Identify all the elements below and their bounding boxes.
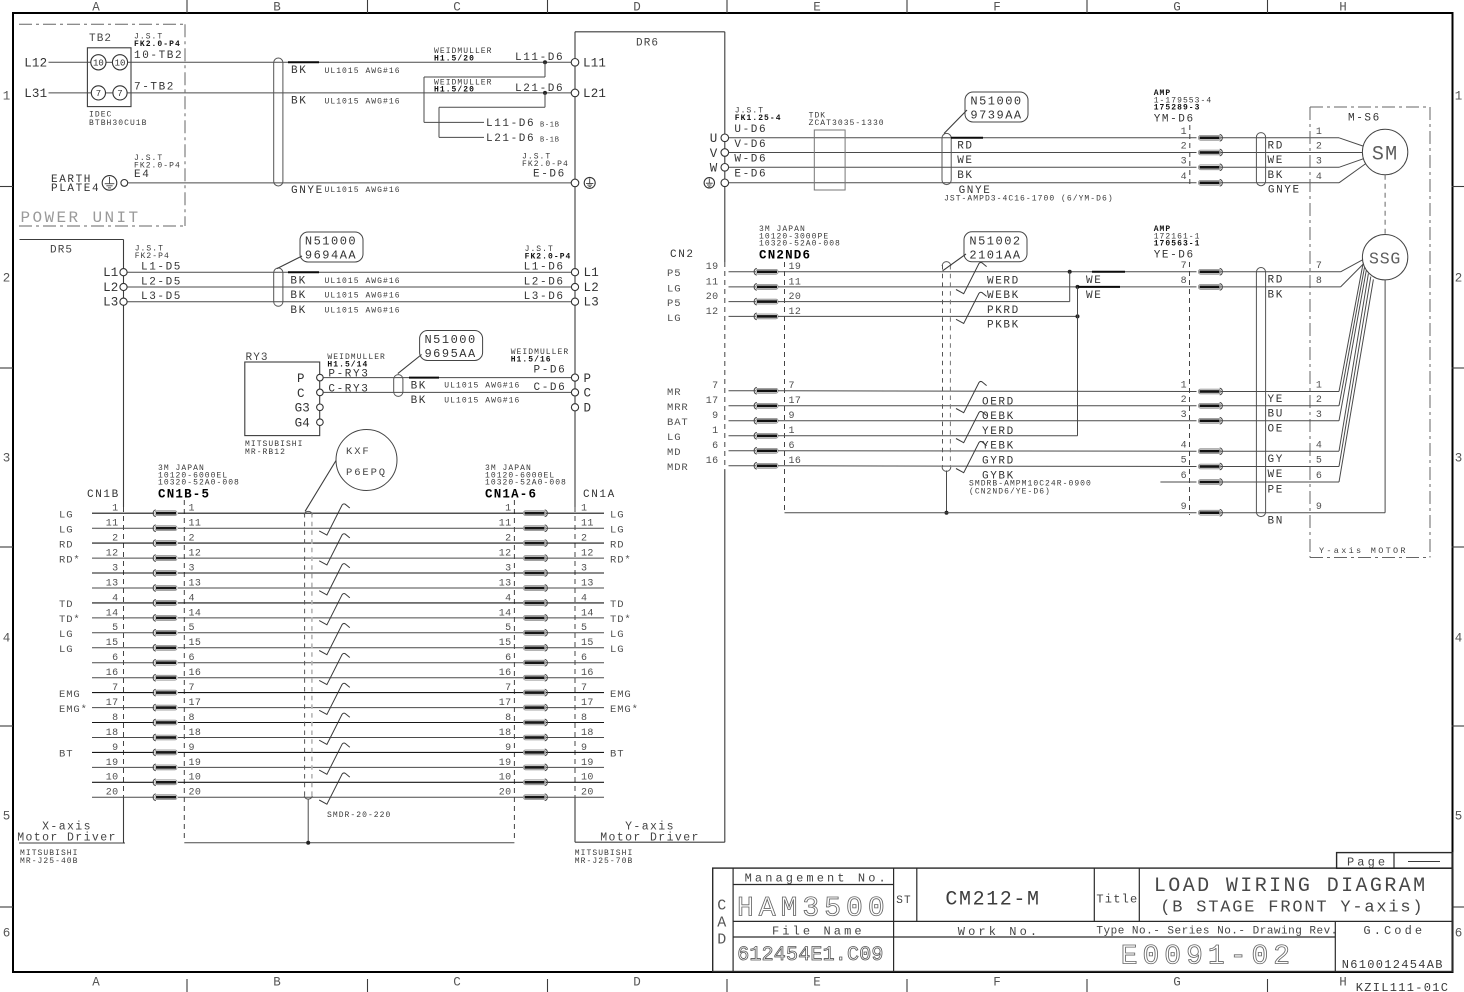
svg-text:10320-52A0-008: 10320-52A0-008 bbox=[759, 240, 841, 249]
X-axis motor driver DR5 box bbox=[20, 239, 124, 241]
svg-text:JST-AMPD3-4C16-1700 (6/YM-D6): JST-AMPD3-4C16-1700 (6/YM-D6) bbox=[944, 194, 1114, 203]
ferrule CN1A-6 pin 12 bbox=[545, 555, 548, 562]
svg-text:3: 3 bbox=[112, 563, 118, 574]
svg-text:19: 19 bbox=[706, 262, 719, 273]
svg-text:FK2.0-P4: FK2.0-P4 bbox=[134, 40, 181, 49]
svg-text:EMG: EMG bbox=[610, 689, 632, 701]
svg-text:BT: BT bbox=[59, 749, 73, 761]
svg-text:YEBK: YEBK bbox=[982, 441, 1015, 453]
svg-text:1: 1 bbox=[1316, 127, 1322, 138]
svg-text:5: 5 bbox=[1316, 456, 1322, 467]
svg-text:13: 13 bbox=[106, 578, 119, 589]
svg-text:19: 19 bbox=[189, 758, 202, 769]
wire CN1B pin 20 to CN1A pin 20 bbox=[92, 796, 154, 798]
wire CN1B pin 15 to CN1A pin 15 bbox=[92, 647, 154, 649]
svg-text:U-D6: U-D6 bbox=[734, 124, 767, 136]
svg-text:8: 8 bbox=[505, 713, 511, 724]
svg-text:GY: GY bbox=[1268, 454, 1284, 466]
svg-text:P-RY3: P-RY3 bbox=[328, 368, 369, 380]
svg-text:WE: WE bbox=[1086, 290, 1102, 302]
svg-text:Work No.: Work No. bbox=[958, 925, 1040, 939]
svg-text:3: 3 bbox=[1455, 452, 1463, 466]
wire CN1B pin 12 to CN1A pin 12 bbox=[92, 557, 154, 559]
svg-text:6: 6 bbox=[112, 653, 118, 664]
wire emphasis U bbox=[951, 137, 983, 139]
svg-text:U: U bbox=[710, 132, 718, 146]
ferrule YE-D6 pin 1 bbox=[1220, 388, 1223, 395]
svg-text:6: 6 bbox=[1316, 471, 1322, 482]
ferrule CN1B-5 pin 2 bbox=[153, 540, 156, 547]
svg-text:(CN2ND6/YE-D6): (CN2ND6/YE-D6) bbox=[969, 488, 1051, 497]
svg-text:L3-D5: L3-D5 bbox=[141, 291, 182, 303]
svg-text:11: 11 bbox=[499, 519, 512, 530]
cable sheath (power unit to DR6) bbox=[274, 58, 283, 186]
svg-text:LG: LG bbox=[667, 432, 681, 444]
svg-text:E0091-02: E0091-02 bbox=[1121, 942, 1295, 973]
svg-text:H: H bbox=[1339, 1, 1347, 15]
svg-text:ST: ST bbox=[896, 895, 911, 907]
ferrule CN1B-5 pin 18 bbox=[153, 734, 156, 741]
wire L12 to TB2 bbox=[49, 61, 91, 63]
ferrule CN2ND6 pin 20 bbox=[754, 298, 757, 305]
svg-text:18: 18 bbox=[499, 728, 512, 739]
svg-text:6: 6 bbox=[189, 653, 195, 664]
svg-text:H1.5/16: H1.5/16 bbox=[511, 355, 552, 364]
wire OEBK (MRR) to pin2 bbox=[778, 405, 1197, 407]
svg-text:CN1B-5: CN1B-5 bbox=[158, 488, 210, 502]
twist markers CN2 cable bbox=[956, 262, 987, 293]
ferrule CN1A-6 pin 18 bbox=[545, 734, 548, 741]
svg-text:UL1015 AWG#16: UL1015 AWG#16 bbox=[325, 306, 401, 315]
svg-text:L1: L1 bbox=[584, 266, 599, 280]
svg-text:9: 9 bbox=[112, 743, 118, 754]
wire GYRD (MD) to pin4 bbox=[778, 450, 1197, 452]
wire BN (pin9) to SSG bottom bbox=[1221, 512, 1386, 514]
svg-text:DR6: DR6 bbox=[636, 37, 659, 49]
svg-text:BK: BK bbox=[411, 395, 427, 407]
svg-text:BK: BK bbox=[290, 305, 306, 317]
svg-text:3: 3 bbox=[581, 563, 587, 574]
ferrule CN1B-5 pin 17 bbox=[153, 704, 156, 711]
svg-text:L3: L3 bbox=[584, 296, 599, 310]
ferrule CN1A-6 pin 11 bbox=[545, 525, 548, 532]
wire W to YM-D6 pin3 bbox=[729, 166, 1197, 168]
cable sheath RY3 bbox=[394, 375, 403, 397]
svg-text:LG: LG bbox=[59, 509, 73, 521]
svg-text:YE: YE bbox=[1268, 394, 1284, 406]
svg-text:1: 1 bbox=[3, 90, 11, 104]
svg-text:18: 18 bbox=[106, 728, 119, 739]
svg-text:BK: BK bbox=[411, 380, 427, 392]
svg-text:15: 15 bbox=[106, 638, 119, 649]
svg-text:P-D6: P-D6 bbox=[534, 364, 567, 376]
svg-text:L21-D6: L21-D6 bbox=[486, 133, 535, 145]
twist markers CN1B cable bbox=[319, 504, 350, 535]
svg-text:L31: L31 bbox=[24, 87, 47, 101]
svg-text:20: 20 bbox=[106, 788, 119, 799]
TDK ferrite ZCAT3035-1330 bbox=[814, 130, 845, 190]
wire CN1B pin 16 to CN1A pin 16 bbox=[92, 677, 154, 679]
svg-text:EMG: EMG bbox=[59, 689, 81, 701]
cable shield drain CN2ND6 bbox=[946, 471, 948, 513]
TB2 terminal 10 (right) bbox=[112, 55, 127, 70]
svg-text:BN: BN bbox=[1268, 515, 1284, 527]
ferrule YM-D6 pin 3 bbox=[1220, 164, 1223, 171]
svg-text:2: 2 bbox=[1316, 395, 1322, 406]
svg-text:12: 12 bbox=[706, 307, 719, 318]
svg-text:G4: G4 bbox=[295, 417, 310, 431]
wire L31 to TB2 bbox=[49, 92, 92, 94]
svg-text:2101AA: 2101AA bbox=[969, 248, 1021, 262]
terminal G4 bbox=[317, 419, 324, 426]
svg-text:L3: L3 bbox=[103, 296, 118, 310]
terminal block TB2 bbox=[87, 48, 131, 107]
wire U to YM-D6 pin1 bbox=[729, 137, 1197, 139]
svg-text:MDR: MDR bbox=[667, 462, 689, 474]
svg-text:170563-1: 170563-1 bbox=[1154, 240, 1201, 249]
svg-text:RD: RD bbox=[1268, 274, 1284, 286]
svg-text:10: 10 bbox=[189, 773, 202, 784]
terminal L21 on DR6 bbox=[571, 89, 579, 97]
terminal C DR6 bbox=[571, 389, 578, 396]
ferrule CN2ND6 pin 6 bbox=[754, 447, 757, 454]
svg-text:C: C bbox=[453, 976, 461, 990]
ferrule CN1A-6 pin 6 bbox=[545, 659, 548, 666]
svg-text:HAM3500: HAM3500 bbox=[737, 894, 890, 925]
ferrule CN2ND6 pin 7 bbox=[754, 387, 757, 394]
ferrule CN1A-6 pin 20 bbox=[545, 794, 548, 801]
svg-text:1: 1 bbox=[505, 504, 511, 515]
shield bond wire between connector shells bbox=[184, 842, 514, 844]
ferrule YM-D6 pin 4 bbox=[1220, 179, 1223, 186]
svg-text:1: 1 bbox=[1316, 381, 1322, 392]
svg-text:N51000: N51000 bbox=[305, 235, 357, 249]
wire CN1B pin 8 to CN1A pin 8 bbox=[92, 722, 154, 724]
wire C-RY3 to C-D6 bbox=[323, 391, 575, 393]
svg-text:H1.5/20: H1.5/20 bbox=[434, 54, 475, 63]
svg-text:D: D bbox=[584, 402, 592, 416]
svg-text:RY3: RY3 bbox=[246, 352, 269, 364]
wire YM-D6 pin 4 to motor bbox=[1221, 182, 1340, 184]
svg-text:WE: WE bbox=[1268, 469, 1284, 481]
wire CN1B pin 3 to CN1A pin 3 bbox=[92, 572, 154, 574]
svg-text:14: 14 bbox=[189, 608, 202, 619]
wire WERD (pin19) to YE-D6 pin7 bbox=[778, 271, 1197, 273]
svg-text:C-D6: C-D6 bbox=[534, 382, 567, 394]
svg-text:6: 6 bbox=[3, 927, 11, 941]
svg-text:4: 4 bbox=[189, 593, 195, 604]
wire emphasis P bbox=[409, 377, 439, 379]
ferrule CN1A-6 pin 3 bbox=[545, 570, 548, 577]
svg-text:RD: RD bbox=[957, 140, 973, 152]
terminal L3 DR6 bbox=[571, 298, 578, 305]
svg-text:4: 4 bbox=[1316, 440, 1322, 451]
svg-text:RD: RD bbox=[1268, 140, 1284, 152]
ferrule CN1B-5 pin 4 bbox=[153, 600, 156, 607]
svg-text:17: 17 bbox=[706, 396, 719, 407]
svg-text:17: 17 bbox=[581, 698, 594, 709]
svg-text:CM212-M: CM212-M bbox=[945, 888, 1040, 911]
svg-text:YM-D6: YM-D6 bbox=[1154, 114, 1195, 126]
ferrule CN1B-5 pin 11 bbox=[153, 525, 156, 532]
svg-text:10: 10 bbox=[93, 59, 104, 69]
svg-text:E: E bbox=[813, 976, 821, 990]
svg-text:4: 4 bbox=[112, 593, 118, 604]
CN2ND6 connector boundary (dashed) bbox=[784, 262, 786, 511]
svg-text:L2-D6: L2-D6 bbox=[524, 276, 565, 288]
TB2 terminal 7 (right) bbox=[113, 86, 127, 100]
ferrule CN2ND6 pin 16 bbox=[754, 462, 757, 469]
cable CN2ND6 (dashed pair) bbox=[942, 265, 944, 467]
svg-text:10-TB2: 10-TB2 bbox=[134, 50, 183, 62]
POWER UNIT enclosure (dash-dot) bbox=[19, 23, 185, 25]
svg-text:RD: RD bbox=[59, 539, 73, 551]
svg-text:LG: LG bbox=[610, 509, 624, 521]
svg-text:7: 7 bbox=[117, 89, 122, 99]
wire WEBK (pin11) bbox=[778, 286, 1197, 288]
svg-text:TD*: TD* bbox=[610, 614, 632, 626]
ferrule CN1B-5 pin 6 bbox=[153, 659, 156, 666]
svg-text:6: 6 bbox=[1181, 471, 1187, 482]
wire emphasis L11 bbox=[288, 61, 319, 63]
svg-text:G3: G3 bbox=[295, 402, 310, 416]
svg-text:ZCAT3035-1330: ZCAT3035-1330 bbox=[809, 119, 885, 128]
wire CN2 pin 16 (MDR) bbox=[729, 465, 756, 467]
svg-text:UL1015 AWG#16: UL1015 AWG#16 bbox=[444, 382, 520, 391]
svg-text:7: 7 bbox=[112, 683, 118, 694]
wire CN2 pin 7 (MR) bbox=[729, 390, 756, 392]
wire CN1B pin 13 to CN1A pin 13 bbox=[92, 587, 154, 589]
ferrule CN1B-5 pin 9 bbox=[153, 749, 156, 756]
svg-text:D: D bbox=[633, 1, 641, 15]
ferrule CN1B-5 pin 20 bbox=[153, 794, 156, 801]
svg-text:WE: WE bbox=[1268, 155, 1284, 167]
shield/PE wire to YE-D6 pin9 bbox=[785, 512, 1197, 514]
svg-text:4: 4 bbox=[1455, 632, 1463, 646]
svg-text:LG: LG bbox=[667, 313, 681, 325]
svg-text:Management No.: Management No. bbox=[745, 872, 889, 886]
wire CN2 pin 20 (P5) bbox=[729, 301, 756, 303]
svg-text:11: 11 bbox=[706, 277, 719, 288]
svg-text:GNYE: GNYE bbox=[291, 185, 324, 197]
ferrule CN2ND6 pin 12 bbox=[754, 313, 757, 320]
svg-text:BTBH30CU1B: BTBH30CU1B bbox=[89, 119, 148, 128]
svg-text:16: 16 bbox=[189, 668, 202, 679]
svg-text:10: 10 bbox=[106, 773, 119, 784]
svg-text:L2-D5: L2-D5 bbox=[141, 276, 182, 288]
svg-text:2: 2 bbox=[112, 534, 118, 545]
svg-text:1: 1 bbox=[581, 504, 587, 515]
terminal C bbox=[317, 389, 324, 396]
svg-text:H1.5/20: H1.5/20 bbox=[434, 86, 475, 95]
terminal L1 DR5 bbox=[120, 269, 127, 276]
svg-text:15: 15 bbox=[499, 638, 512, 649]
svg-text:F: F bbox=[993, 976, 1001, 990]
svg-text:UL1015 AWG#16: UL1015 AWG#16 bbox=[325, 98, 401, 107]
svg-text:Page: Page bbox=[1347, 855, 1388, 869]
svg-text:2: 2 bbox=[3, 272, 11, 286]
svg-text:A: A bbox=[92, 976, 100, 990]
svg-text:POWER UNIT: POWER UNIT bbox=[21, 209, 141, 227]
svg-text:15: 15 bbox=[189, 638, 202, 649]
svg-text:9695AA: 9695AA bbox=[424, 347, 476, 361]
terminal P bbox=[317, 374, 324, 381]
wire CN1B pin 5 to CN1A pin 5 bbox=[92, 632, 154, 634]
svg-text:KZIL111-01C: KZIL111-01C bbox=[1356, 981, 1450, 992]
svg-text:612454E1.C09: 612454E1.C09 bbox=[737, 944, 883, 967]
ferrule YM-D6 pin 2 bbox=[1220, 149, 1223, 156]
cable sheath to SM motor bbox=[1256, 133, 1265, 186]
svg-text:OEBK: OEBK bbox=[982, 411, 1015, 423]
svg-text:2: 2 bbox=[189, 534, 195, 545]
terminal E-D6 with ground bbox=[571, 179, 579, 187]
terminal L2 DR6 bbox=[571, 283, 578, 290]
svg-text:1: 1 bbox=[112, 504, 118, 515]
svg-text:WEBK: WEBK bbox=[987, 290, 1020, 302]
svg-text:E4: E4 bbox=[134, 169, 150, 181]
svg-text:10320-52A0-008: 10320-52A0-008 bbox=[485, 479, 567, 488]
terminal D DR6 bbox=[571, 404, 578, 411]
ferrule CN1A-6 pin 9 bbox=[545, 749, 548, 756]
svg-text:9739AA: 9739AA bbox=[970, 109, 1022, 123]
svg-text:3: 3 bbox=[1316, 410, 1322, 421]
wire CN2 pin 1 (LG) bbox=[729, 435, 756, 437]
svg-text:17: 17 bbox=[499, 698, 512, 709]
wire CN1B pin 17 to CN1A pin 17 bbox=[92, 707, 154, 709]
ferrule CN2ND6 pin 11 bbox=[754, 284, 757, 291]
terminal G3 bbox=[317, 404, 324, 411]
svg-text:E-D6: E-D6 bbox=[734, 168, 767, 180]
svg-text:C: C bbox=[297, 387, 305, 401]
terminal V bbox=[721, 149, 729, 157]
svg-text:LG: LG bbox=[610, 629, 624, 641]
svg-text:P: P bbox=[297, 372, 305, 386]
svg-text:MD: MD bbox=[667, 447, 681, 459]
wire CN2 pin 11 (LG) bbox=[729, 286, 756, 288]
svg-text:E-D6: E-D6 bbox=[533, 169, 566, 181]
svg-text:4: 4 bbox=[1316, 172, 1322, 183]
svg-text:13: 13 bbox=[189, 578, 202, 589]
svg-text:L3-D6: L3-D6 bbox=[524, 291, 565, 303]
svg-text:LG: LG bbox=[610, 644, 624, 656]
svg-text:M-S6: M-S6 bbox=[1348, 112, 1381, 124]
svg-text:N51002: N51002 bbox=[969, 234, 1021, 248]
svg-text:L11: L11 bbox=[583, 56, 606, 70]
svg-text:2: 2 bbox=[581, 534, 587, 545]
svg-text:PE: PE bbox=[1268, 485, 1284, 497]
svg-text:Y-axis MOTOR: Y-axis MOTOR bbox=[1319, 546, 1408, 556]
YM-D6 boundary (dashed) bbox=[1189, 125, 1191, 184]
junction L21-D6 branch bbox=[543, 91, 547, 95]
svg-text:C-RY3: C-RY3 bbox=[328, 383, 369, 395]
svg-text:RD*: RD* bbox=[59, 554, 81, 566]
svg-text:FK2-P4: FK2-P4 bbox=[135, 252, 170, 261]
svg-text:RD*: RD* bbox=[610, 554, 632, 566]
wire CN2 pin 19 (P5) bbox=[729, 271, 756, 273]
svg-text:1: 1 bbox=[712, 426, 718, 437]
svg-text:A: A bbox=[717, 914, 726, 931]
svg-text:L2: L2 bbox=[103, 281, 118, 295]
svg-text:BK: BK bbox=[1268, 170, 1284, 182]
svg-text:18: 18 bbox=[581, 728, 594, 739]
svg-text:C: C bbox=[584, 387, 592, 401]
svg-text:LG: LG bbox=[59, 644, 73, 656]
svg-text:5: 5 bbox=[3, 810, 11, 824]
ferrule YE-D6 pin 2 bbox=[1220, 402, 1223, 409]
ferrule CN1B-5 pin 1 bbox=[153, 510, 156, 517]
svg-text:14: 14 bbox=[106, 608, 119, 619]
svg-text:16: 16 bbox=[581, 668, 594, 679]
svg-text:20: 20 bbox=[706, 292, 719, 303]
ferrule CN1A-6 pin 4 bbox=[545, 600, 548, 607]
svg-text:L1-D5: L1-D5 bbox=[141, 262, 182, 274]
svg-text:10: 10 bbox=[581, 773, 594, 784]
svg-text:RD: RD bbox=[610, 539, 624, 551]
svg-text:3: 3 bbox=[1181, 157, 1187, 168]
ferrule YE-D6 pin 9 bbox=[1220, 509, 1223, 516]
svg-text:BK: BK bbox=[1268, 290, 1284, 302]
svg-text:SSG: SSG bbox=[1369, 250, 1401, 269]
wire CN1B pin 6 to CN1A pin 6 bbox=[92, 662, 154, 664]
wire CN1B pin 18 to CN1A pin 18 bbox=[92, 737, 154, 739]
wire YEBK (LG) ends at junction bbox=[778, 435, 1078, 437]
svg-text:L21: L21 bbox=[583, 87, 606, 101]
svg-text:4: 4 bbox=[1181, 440, 1187, 451]
balloon N51002 2101AA bbox=[943, 254, 966, 271]
svg-text:MR-J25-70B: MR-J25-70B bbox=[575, 857, 634, 866]
wires YE-D6 to SSG fan bbox=[1221, 271, 1341, 273]
terminal L2 DR5 bbox=[120, 283, 127, 290]
svg-text:L12: L12 bbox=[24, 57, 47, 71]
svg-text:Motor Driver: Motor Driver bbox=[600, 831, 700, 844]
svg-text:TB2: TB2 bbox=[89, 33, 112, 45]
svg-text:1: 1 bbox=[1455, 90, 1463, 104]
svg-text:LG: LG bbox=[667, 283, 681, 295]
wire CN1B pin 2 to CN1A pin 2 bbox=[92, 542, 154, 544]
ferrule CN1A-6 pin 10 bbox=[545, 779, 548, 786]
svg-text:2: 2 bbox=[1316, 142, 1322, 153]
ferrule CN1B-5 pin 10 bbox=[153, 779, 156, 786]
svg-text:B-1B: B-1B bbox=[540, 122, 560, 130]
wire CN2 pin 6 (MD) bbox=[729, 450, 756, 452]
svg-text:6: 6 bbox=[712, 441, 718, 452]
wire P-RY3 to P-D6 bbox=[323, 377, 575, 379]
svg-text:BAT: BAT bbox=[667, 417, 689, 429]
svg-text:6: 6 bbox=[505, 653, 511, 664]
cable sheath DR5-DR6 bbox=[274, 268, 283, 306]
svg-text:9: 9 bbox=[1181, 502, 1187, 513]
svg-text:DR5: DR5 bbox=[50, 245, 73, 257]
TB2 terminal 7 (left) bbox=[91, 86, 105, 100]
svg-text:GNYE: GNYE bbox=[1268, 184, 1301, 196]
wires converge to SM bbox=[1339, 138, 1363, 146]
svg-text:UL1015 AWG#16: UL1015 AWG#16 bbox=[325, 67, 401, 76]
CN1B connector boundary (dashed) bbox=[183, 500, 185, 841]
junction L11-D6 branch bbox=[543, 60, 547, 64]
wire CN2 pin 12 (LG) bbox=[729, 315, 756, 317]
wire CN1B pin 14 to CN1A pin 14 bbox=[92, 617, 154, 619]
svg-text:YERD: YERD bbox=[982, 426, 1015, 438]
wire CN2 pin 17 (MRR) bbox=[729, 405, 756, 407]
terminal P DR6 bbox=[571, 374, 578, 381]
svg-text:EMG*: EMG* bbox=[59, 704, 88, 716]
svg-text:FK2.0-P4: FK2.0-P4 bbox=[525, 252, 572, 261]
svg-text:L21-D6: L21-D6 bbox=[515, 83, 564, 95]
CN1A connector boundary (dashed) bbox=[513, 500, 515, 841]
svg-text:5: 5 bbox=[189, 623, 195, 634]
svg-text:SMDR-20-220: SMDR-20-220 bbox=[327, 811, 391, 820]
svg-text:19: 19 bbox=[106, 758, 119, 769]
